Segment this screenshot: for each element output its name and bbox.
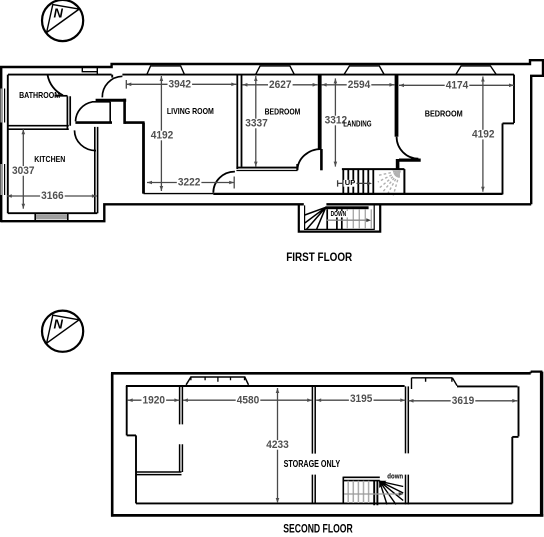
bathroom right wall (double line): [67, 96, 70, 129]
svg-text:3619: 3619: [452, 395, 475, 407]
stair2 treads (grey): [348, 481, 368, 503]
second floor outer left wall: [111, 373, 114, 516]
dimension 3037 line: [22, 129, 24, 208]
stair2 divider (double black): [374, 481, 377, 506]
dimension 3037 arrows: [22, 129, 26, 134]
dimension 3942 line: [126, 80, 236, 89]
dimension 3222 arrows: [147, 181, 152, 185]
closet bottom wall: [75, 121, 112, 124]
svg-text:4192: 4192: [472, 129, 495, 141]
dimension 4580 label: [236, 395, 261, 405]
second floor bay window mullion ticks: [191, 377, 245, 382]
living room left wall: [142, 123, 145, 194]
first floor inner top wall line (east of front door): [122, 74, 514, 76]
compass pointer triangle (first floor): [47, 5, 80, 33]
svg-text:N: N: [54, 6, 64, 21]
second floor outer top-right step: [531, 372, 543, 374]
closet right edge: [109, 102, 111, 122]
dimension 3195 label: [349, 394, 374, 404]
dimension 4174 label: [445, 81, 470, 91]
svg-text:down: down: [387, 473, 403, 480]
second floor bay window trapezoid: [186, 377, 248, 385]
bathroom bottom wall (double line): [8, 126, 69, 130]
dimension 3337 line: [255, 76, 257, 167]
second floor inner left wall: [126, 386, 128, 435]
closet top edge: [92, 101, 110, 103]
dimension 3619 line: [409, 400, 518, 402]
dimension 1920 arrows: [128, 398, 133, 402]
svg-text:LIVING ROOM: LIVING ROOM: [167, 106, 214, 116]
second floor inner right wall upper: [518, 386, 520, 436]
first floor outer bottom wall right segment: [326, 203, 531, 205]
hall top wall below front door: [96, 99, 127, 102]
dimension 3337 label: [244, 119, 269, 129]
dimension 4580 line: [183, 399, 312, 401]
svg-text:DOWN: DOWN: [331, 211, 347, 218]
second floor inner top line west: [126, 385, 405, 387]
dimension 4192 living room arrows: [160, 76, 164, 81]
second floor inner left step: [127, 434, 136, 436]
partition P2 upper (double line): [312, 386, 315, 454]
dimension 4580 arrows: [183, 398, 188, 402]
partition P2 lower (double line): [312, 475, 315, 504]
front door jamb tick: [111, 75, 113, 78]
stair2 direction line (grey): [344, 493, 400, 495]
partition P3 upper (double line): [406, 386, 409, 453]
svg-text:3166: 3166: [41, 190, 64, 202]
front door arc: [102, 76, 122, 97]
second floor inner right wall lower: [511, 437, 513, 504]
svg-text:3037: 3037: [12, 165, 35, 177]
svg-text:1920: 1920: [143, 394, 166, 406]
dimension 4233 arrows: [276, 388, 280, 393]
window W1 bathroom left wall (grey): [0, 89, 3, 123]
svg-text:STORAGE ONLY: STORAGE ONLY: [284, 459, 341, 470]
svg-text:2594: 2594: [348, 79, 371, 91]
dimension 3337 arrows: [254, 76, 258, 81]
bedroom1 door jamb tick: [296, 164, 298, 171]
svg-text:3222: 3222: [178, 177, 201, 189]
inner right wall step: [503, 122, 515, 124]
svg-text:BEDROOM: BEDROOM: [425, 109, 463, 119]
up stair winder fan (grey dashed): [378, 171, 401, 196]
second floor inner left wall lower: [135, 435, 137, 503]
stairwell connector wall: [396, 159, 400, 169]
dimension 2594 line: [322, 84, 395, 86]
inner right wall lower: [502, 123, 504, 194]
compass pointer triangle (second floor): [47, 315, 80, 343]
svg-text:3337: 3337: [245, 118, 268, 130]
down stair treads (black): [327, 209, 342, 229]
dimension 3942 arrows: [126, 83, 131, 87]
dimension 2627 line: [242, 84, 317, 86]
window W2 inner frame line: [4, 164, 6, 195]
svg-text:BATHROOM: BATHROOM: [19, 90, 60, 100]
first floor inner bottom wall line: [213, 193, 502, 195]
dimension 4174 arrows: [399, 84, 404, 88]
stair2 winder fan lines: [380, 481, 404, 504]
second floor outer right wall: [540, 372, 543, 517]
dimension 3222 label: [177, 178, 202, 188]
bedroom1 bottom wall (double line): [236, 167, 297, 169]
dimension 4192 bedroom2 line: [482, 77, 484, 192]
svg-text:4233: 4233: [266, 439, 289, 451]
svg-text:N: N: [54, 316, 64, 331]
stair2 winder pivot wedge: [379, 481, 386, 488]
stair2 outline left and top: [343, 477, 380, 504]
second floor inner bottom line: [136, 502, 512, 504]
stair2 arrow head: [399, 492, 404, 496]
svg-text:4192: 4192: [151, 130, 174, 142]
bathroom door leaf: [55, 95, 68, 97]
first floor inner top wall line (west of front door): [8, 74, 112, 76]
window W3 end ticks: [35, 213, 68, 221]
living room door arc: [213, 172, 235, 193]
up stair top edge: [342, 168, 405, 170]
left room bottom wall (double line): [136, 472, 182, 475]
svg-text:4174: 4174: [446, 79, 469, 91]
dimension 2594 arrows: [322, 83, 327, 87]
DOWN label: [329, 211, 348, 218]
svg-text:3195: 3195: [350, 393, 373, 405]
down arrow line: [327, 219, 367, 221]
svg-text:KITCHEN: KITCHEN: [34, 154, 65, 164]
dimension 3312 line: [334, 78, 336, 166]
bedroom1 left wall (double line): [237, 75, 241, 169]
dimension 3942 label: [168, 80, 193, 90]
up stair winder pivot wedge (grey): [392, 170, 400, 178]
compass needle (second floor): [47, 320, 80, 343]
landing right wall: [395, 75, 399, 137]
closet door arc: [76, 102, 93, 121]
svg-text:UP: UP: [345, 180, 356, 187]
svg-text:2627: 2627: [269, 79, 292, 91]
svg-text:BEDROOM: BEDROOM: [265, 107, 301, 117]
dimension 3195 arrows: [316, 398, 321, 402]
dimension 3619 label: [451, 396, 476, 406]
svg-text:3942: 3942: [169, 78, 192, 90]
kitchen bottom inner wall line: [8, 212, 98, 214]
partition P3 lower (double line): [406, 475, 409, 505]
second floor outer top wall: [111, 372, 531, 375]
up arrow line: [338, 180, 367, 186]
dimension 3312 arrows: [334, 78, 338, 83]
down stair enclosure outer: [299, 204, 380, 231]
second floor outer bottom wall: [111, 514, 543, 517]
up arrow head: [367, 182, 372, 186]
first floor outer wall (left + top + right): [1, 60, 543, 222]
inner right wall upper: [513, 75, 515, 123]
svg-text:FIRST FLOOR: FIRST FLOOR: [286, 252, 353, 264]
first floor outer bottom wall left segment with kitchen step: [1, 204, 304, 221]
second floor inner right jog: [512, 436, 518, 438]
stairwell top wall: [399, 159, 421, 162]
second floor window sill and ticks: [412, 378, 458, 389]
dimension 4233 line: [277, 388, 279, 503]
kitchen right wall (double line): [95, 127, 98, 213]
bay window landing (trapezoid): [344, 66, 384, 75]
dimension 2627 label: [268, 80, 293, 90]
dimension 1920 line: [128, 399, 180, 401]
dimension 4174 line: [399, 84, 514, 86]
window W4 top wall lines and ticks: [82, 67, 98, 74]
down stair winder fan (black): [305, 207, 326, 229]
up stair right edge: [403, 169, 405, 194]
hall bottom wall east segment: [125, 121, 145, 124]
down arrow head: [366, 218, 371, 222]
dimension 4192 bedroom2 arrows: [481, 77, 485, 82]
bedroom1 door arc: [298, 149, 322, 170]
second floor inner top line east: [457, 385, 518, 387]
dimension 3166 arrows: [7, 194, 12, 198]
bay window bedroom 1 (trapezoid): [256, 66, 295, 75]
partition P1 lower (double line): [180, 444, 183, 472]
window W2 kitchen left wall (grey): [0, 164, 3, 195]
bay window bedroom 2 (trapezoid): [456, 66, 496, 75]
dimension 4192 living room label: [150, 131, 175, 141]
window W3 kitchen bottom wall (grey): [35, 214, 68, 219]
bedroom1 door leaf: [320, 149, 323, 170]
down label (second floor): [386, 473, 404, 480]
partition P1 upper (double line): [180, 386, 183, 424]
svg-text:LANDING: LANDING: [343, 119, 371, 129]
dimension 3166 label: [40, 191, 65, 201]
dimension 2594 label: [347, 80, 372, 90]
dimension 4192 living room line: [160, 76, 162, 191]
dimension 3037 label: [11, 166, 36, 176]
down stair head wall band: [325, 206, 368, 209]
compass circle (second floor): [42, 311, 83, 352]
dimension 3195 line: [316, 399, 405, 401]
down stair enclosure inner: [305, 205, 375, 229]
dimension 3166 line: [7, 195, 97, 197]
dimension 3312 label: [324, 116, 349, 126]
svg-text:4580: 4580: [237, 394, 260, 406]
kitchen door arc: [75, 130, 97, 150]
svg-text:SECOND FLOOR: SECOND FLOOR: [283, 523, 353, 535]
living room bottom inner wall: [144, 193, 214, 195]
first floor inner left wall line: [7, 75, 9, 214]
bedroom2 door arc: [397, 137, 419, 159]
bathroom door arc: [48, 75, 63, 95]
compass needle (first floor): [47, 9, 80, 32]
landing left wall: [318, 75, 322, 149]
bay window living room (trapezoid): [147, 66, 185, 75]
dimension 1920 label: [142, 395, 167, 405]
window W1 inner frame line: [4, 89, 6, 123]
dimension 3619 arrows: [409, 399, 414, 403]
dimension 4233 label: [265, 440, 290, 450]
compass circle (first floor): [42, 0, 83, 41]
UP label: [344, 180, 357, 187]
hall right wall: [123, 99, 126, 124]
dimension 3222 line: [147, 177, 234, 189]
up stair treads: [343, 170, 373, 194]
dimension 4192 bedroom2 label: [471, 130, 496, 140]
dimension 2627 arrows: [242, 83, 247, 87]
down stair treads (grey): [347, 209, 371, 228]
